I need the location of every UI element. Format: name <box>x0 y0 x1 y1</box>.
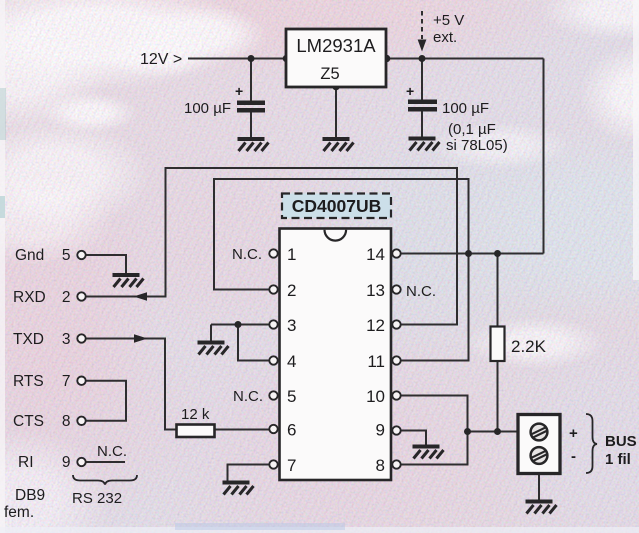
DB9 pin 9 circle <box>77 458 85 466</box>
DB9 pin 5 circle <box>77 251 85 259</box>
pin 5 circle <box>269 391 277 399</box>
svg-text:+5 V: +5 V <box>433 12 464 29</box>
svg-text:RTS: RTS <box>13 373 44 390</box>
pin 6 circle <box>269 425 277 433</box>
pin 14 circle <box>392 249 400 257</box>
node: junction dot bus line at pin10-pin8 strap <box>464 428 471 435</box>
wire IC pin7 to ground <box>228 465 270 481</box>
wire 2.2K bottom lead <box>497 361 499 432</box>
node: junction dot regulator ground pin <box>332 83 340 91</box>
ground (C2) <box>409 137 440 151</box>
svg-text:CD4007UB: CD4007UB <box>292 196 381 216</box>
svg-text:TXD: TXD <box>13 331 44 348</box>
ground (pin 9) <box>413 445 444 459</box>
DB9 pin 8 circle <box>77 417 85 425</box>
wire pin3 ground drop <box>210 325 212 341</box>
svg-text:ext.: ext. <box>433 29 457 46</box>
svg-text:+: + <box>235 83 243 99</box>
svg-text:1: 1 <box>287 245 296 264</box>
pin 4 circle <box>269 356 277 364</box>
svg-text:fem.: fem. <box>4 504 34 521</box>
wire IC pin3 to ground tap <box>211 324 270 326</box>
svg-text:5: 5 <box>62 247 71 264</box>
screw terminal - <box>531 447 548 464</box>
screw terminal + <box>531 424 548 441</box>
wire 12k resistor to IC pin 6 <box>215 429 270 431</box>
wire 2.2K top lead <box>497 254 499 327</box>
svg-text:N.C.: N.C. <box>406 283 436 300</box>
svg-text:(0,1 µF: (0,1 µF <box>448 121 496 138</box>
svg-text:RS 232: RS 232 <box>72 490 122 507</box>
ground (DB9 pin 5) <box>113 273 144 287</box>
regulator Z5 LM2931A <box>286 29 386 87</box>
svg-text:3: 3 <box>62 331 71 348</box>
svg-text:2.2K: 2.2K <box>511 337 547 356</box>
svg-text:Z5: Z5 <box>320 65 339 83</box>
svg-text:2: 2 <box>287 281 296 300</box>
svg-text:+: + <box>406 83 414 99</box>
ground (pin 3 strap) <box>198 341 229 355</box>
wire regulator ground lead <box>335 87 337 138</box>
svg-text:-: - <box>571 448 576 465</box>
svg-text:3: 3 <box>287 316 296 335</box>
svg-text:12: 12 <box>366 316 385 335</box>
node: junction dot VDD rail / 2.2K branch <box>494 250 501 257</box>
wire capacitor C1 bottom lead <box>250 113 252 138</box>
svg-text:12V >: 12V > <box>140 51 182 68</box>
brace BUS <box>586 414 597 473</box>
svg-text:8: 8 <box>62 413 71 430</box>
wire terminal block to ground <box>538 474 540 500</box>
label +5 V ext with dashed arrow <box>418 11 465 52</box>
svg-text:13: 13 <box>366 281 385 300</box>
wire pin14 supply rail <box>401 253 544 255</box>
wire capacitor C1 top lead <box>250 59 252 102</box>
svg-text:2: 2 <box>62 289 71 306</box>
brace RS232 group <box>73 475 137 485</box>
svg-text:LM2931A: LM2931A <box>296 35 376 56</box>
wire pin3 to pin4 strap <box>238 325 270 361</box>
scanner edge artifacts <box>0 0 5 533</box>
svg-text:4: 4 <box>287 352 296 371</box>
node: junction dot C1 tap on 12V line <box>248 55 255 62</box>
wire RTS to CTS strap <box>86 381 127 421</box>
wire IC pin9 to ground <box>401 431 427 445</box>
wire bus line to terminal block <box>468 431 519 433</box>
pin 3 circle <box>269 320 277 328</box>
pin 7 circle <box>269 460 277 468</box>
IC U1 label box CD4007UB <box>282 194 391 219</box>
DB9 pin 2 circle <box>77 292 85 300</box>
svg-text:100 µF: 100 µF <box>442 100 489 117</box>
node: junction dot regulator output <box>383 55 391 63</box>
svg-text:DB9: DB9 <box>15 487 45 504</box>
svg-text:N.C.: N.C. <box>233 388 263 405</box>
wire VDD net: IC pin2 up over IC to pin 14 line and down to pin 11 <box>214 179 469 361</box>
resistor R1 12k <box>177 406 215 437</box>
svg-text:14: 14 <box>366 245 385 264</box>
pin 12 circle <box>392 320 400 328</box>
wire RXD net: DB9 pin2 up over IC down to IC pin 12 <box>86 168 458 325</box>
wire RI N.C. stub <box>86 461 125 463</box>
svg-text:9: 9 <box>376 421 385 440</box>
pin 13 circle <box>392 285 400 293</box>
svg-text:7: 7 <box>62 373 71 390</box>
terminal block BUS <box>518 415 560 474</box>
svg-text:BUS: BUS <box>605 433 637 450</box>
svg-text:CTS: CTS <box>13 413 44 430</box>
capacitor C1 100uF <box>184 83 265 117</box>
pin 8 circle <box>392 460 400 468</box>
ground (C1) <box>238 137 269 151</box>
pin 10 circle <box>392 391 400 399</box>
svg-text:N.C.: N.C. <box>232 246 262 263</box>
svg-text:1 fil: 1 fil <box>605 451 631 468</box>
ground (regulator) <box>323 137 354 151</box>
svg-text:+: + <box>569 425 578 442</box>
wire 12V input <box>188 58 286 60</box>
wire Gnd pin5 to ground <box>86 255 127 274</box>
svg-text:10: 10 <box>366 387 385 406</box>
wire IC pin10 to pin8 with bus tap <box>401 396 468 465</box>
ground (terminal block) <box>526 500 557 514</box>
svg-text:N.C.: N.C. <box>97 443 127 460</box>
svg-text:Gnd: Gnd <box>15 247 44 264</box>
svg-text:6: 6 <box>287 421 296 440</box>
wire capacitor C2 bottom lead <box>421 112 423 138</box>
svg-text:100 µF: 100 µF <box>184 100 231 117</box>
ground (pin 7) <box>223 481 254 495</box>
svg-text:9: 9 <box>62 454 71 471</box>
svg-text:5: 5 <box>287 387 296 406</box>
wire TXD net: DB9 pin3 down to 12k resistor <box>86 339 177 430</box>
node: junction dot bus line at 2.2K bottom <box>494 428 501 435</box>
arrowhead RXD (points left) <box>134 292 148 300</box>
svg-text:8: 8 <box>376 456 385 475</box>
pin 1 circle <box>269 249 277 257</box>
svg-text:7: 7 <box>287 456 296 475</box>
pin 11 circle <box>392 356 400 364</box>
capacitor C2 100uF <box>406 83 508 154</box>
wire right-edge vertical down to pin 14 net <box>543 59 545 254</box>
wire capacitor C2 top lead <box>421 59 423 101</box>
pin 2 circle <box>269 285 277 293</box>
pin 9 circle <box>392 426 400 434</box>
DB9 pin 3 circle <box>77 334 85 342</box>
svg-text:si 78L05): si 78L05) <box>446 137 508 154</box>
node: junction dot pin3/pin4 strap <box>235 321 242 328</box>
node: junction dot regulator input <box>283 55 291 63</box>
node: junction dot +5V / C2 tap <box>419 55 426 62</box>
svg-text:12 k: 12 k <box>181 406 210 423</box>
svg-text:RXD: RXD <box>13 289 46 306</box>
resistor R2 2.2K <box>491 327 547 362</box>
IC U1 CD4007UB body <box>280 229 392 481</box>
node: junction dot VDD rail / pin11 branch <box>465 250 472 257</box>
arrowhead TXD (points right) <box>134 334 148 342</box>
svg-text:RI: RI <box>18 454 34 471</box>
DB9 pin 7 circle <box>77 377 85 385</box>
wire regulator output to right edge <box>386 58 544 60</box>
svg-text:11: 11 <box>367 352 385 371</box>
